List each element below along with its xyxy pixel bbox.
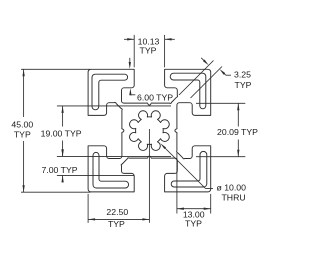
- corner void bottom-right: [171, 151, 207, 187]
- svg-text:19.00 TYP: 19.00 TYP: [41, 128, 82, 138]
- centerline: [148, 129, 150, 223]
- dim 19.00: [57, 105, 171, 107]
- dim 3.25: [179, 61, 214, 96]
- corner void bottom-left: [93, 152, 129, 188]
- svg-text:3.25: 3.25: [234, 70, 251, 80]
- splined center bore: [130, 111, 170, 151]
- dim 6.00: [129, 58, 131, 63]
- extrusion outer profile with four T-slots (pinwheel): [88, 69, 211, 192]
- svg-text:TYP: TYP: [140, 46, 157, 56]
- svg-text:7.00 TYP: 7.00 TYP: [41, 165, 77, 175]
- svg-text:TYP: TYP: [235, 80, 252, 90]
- svg-text:6.00 TYP: 6.00 TYP: [137, 92, 173, 102]
- dim 22.50: [87, 194, 89, 223]
- dim 20.09: [196, 102, 245, 104]
- svg-text:22.50: 22.50: [106, 207, 128, 217]
- svg-text:TYP: TYP: [14, 130, 31, 140]
- dim 7.00: [57, 174, 134, 176]
- svg-text:20.09 TYP: 20.09 TYP: [217, 127, 258, 137]
- corner void top-left: [92, 74, 128, 110]
- dim 10.13: [133, 35, 135, 67]
- dim 13.00: [176, 153, 178, 214]
- svg-text:THRU: THRU: [222, 192, 246, 202]
- svg-text:TYP: TYP: [185, 219, 202, 229]
- svg-text:45.00: 45.00: [11, 120, 33, 130]
- dim 45.00: [21, 68, 91, 70]
- svg-text:ø 10.00: ø 10.00: [217, 182, 247, 192]
- corner void top-right: [170, 73, 206, 109]
- svg-text:TYP: TYP: [108, 219, 125, 229]
- leader dia 10.00 THRU: [165, 148, 206, 189]
